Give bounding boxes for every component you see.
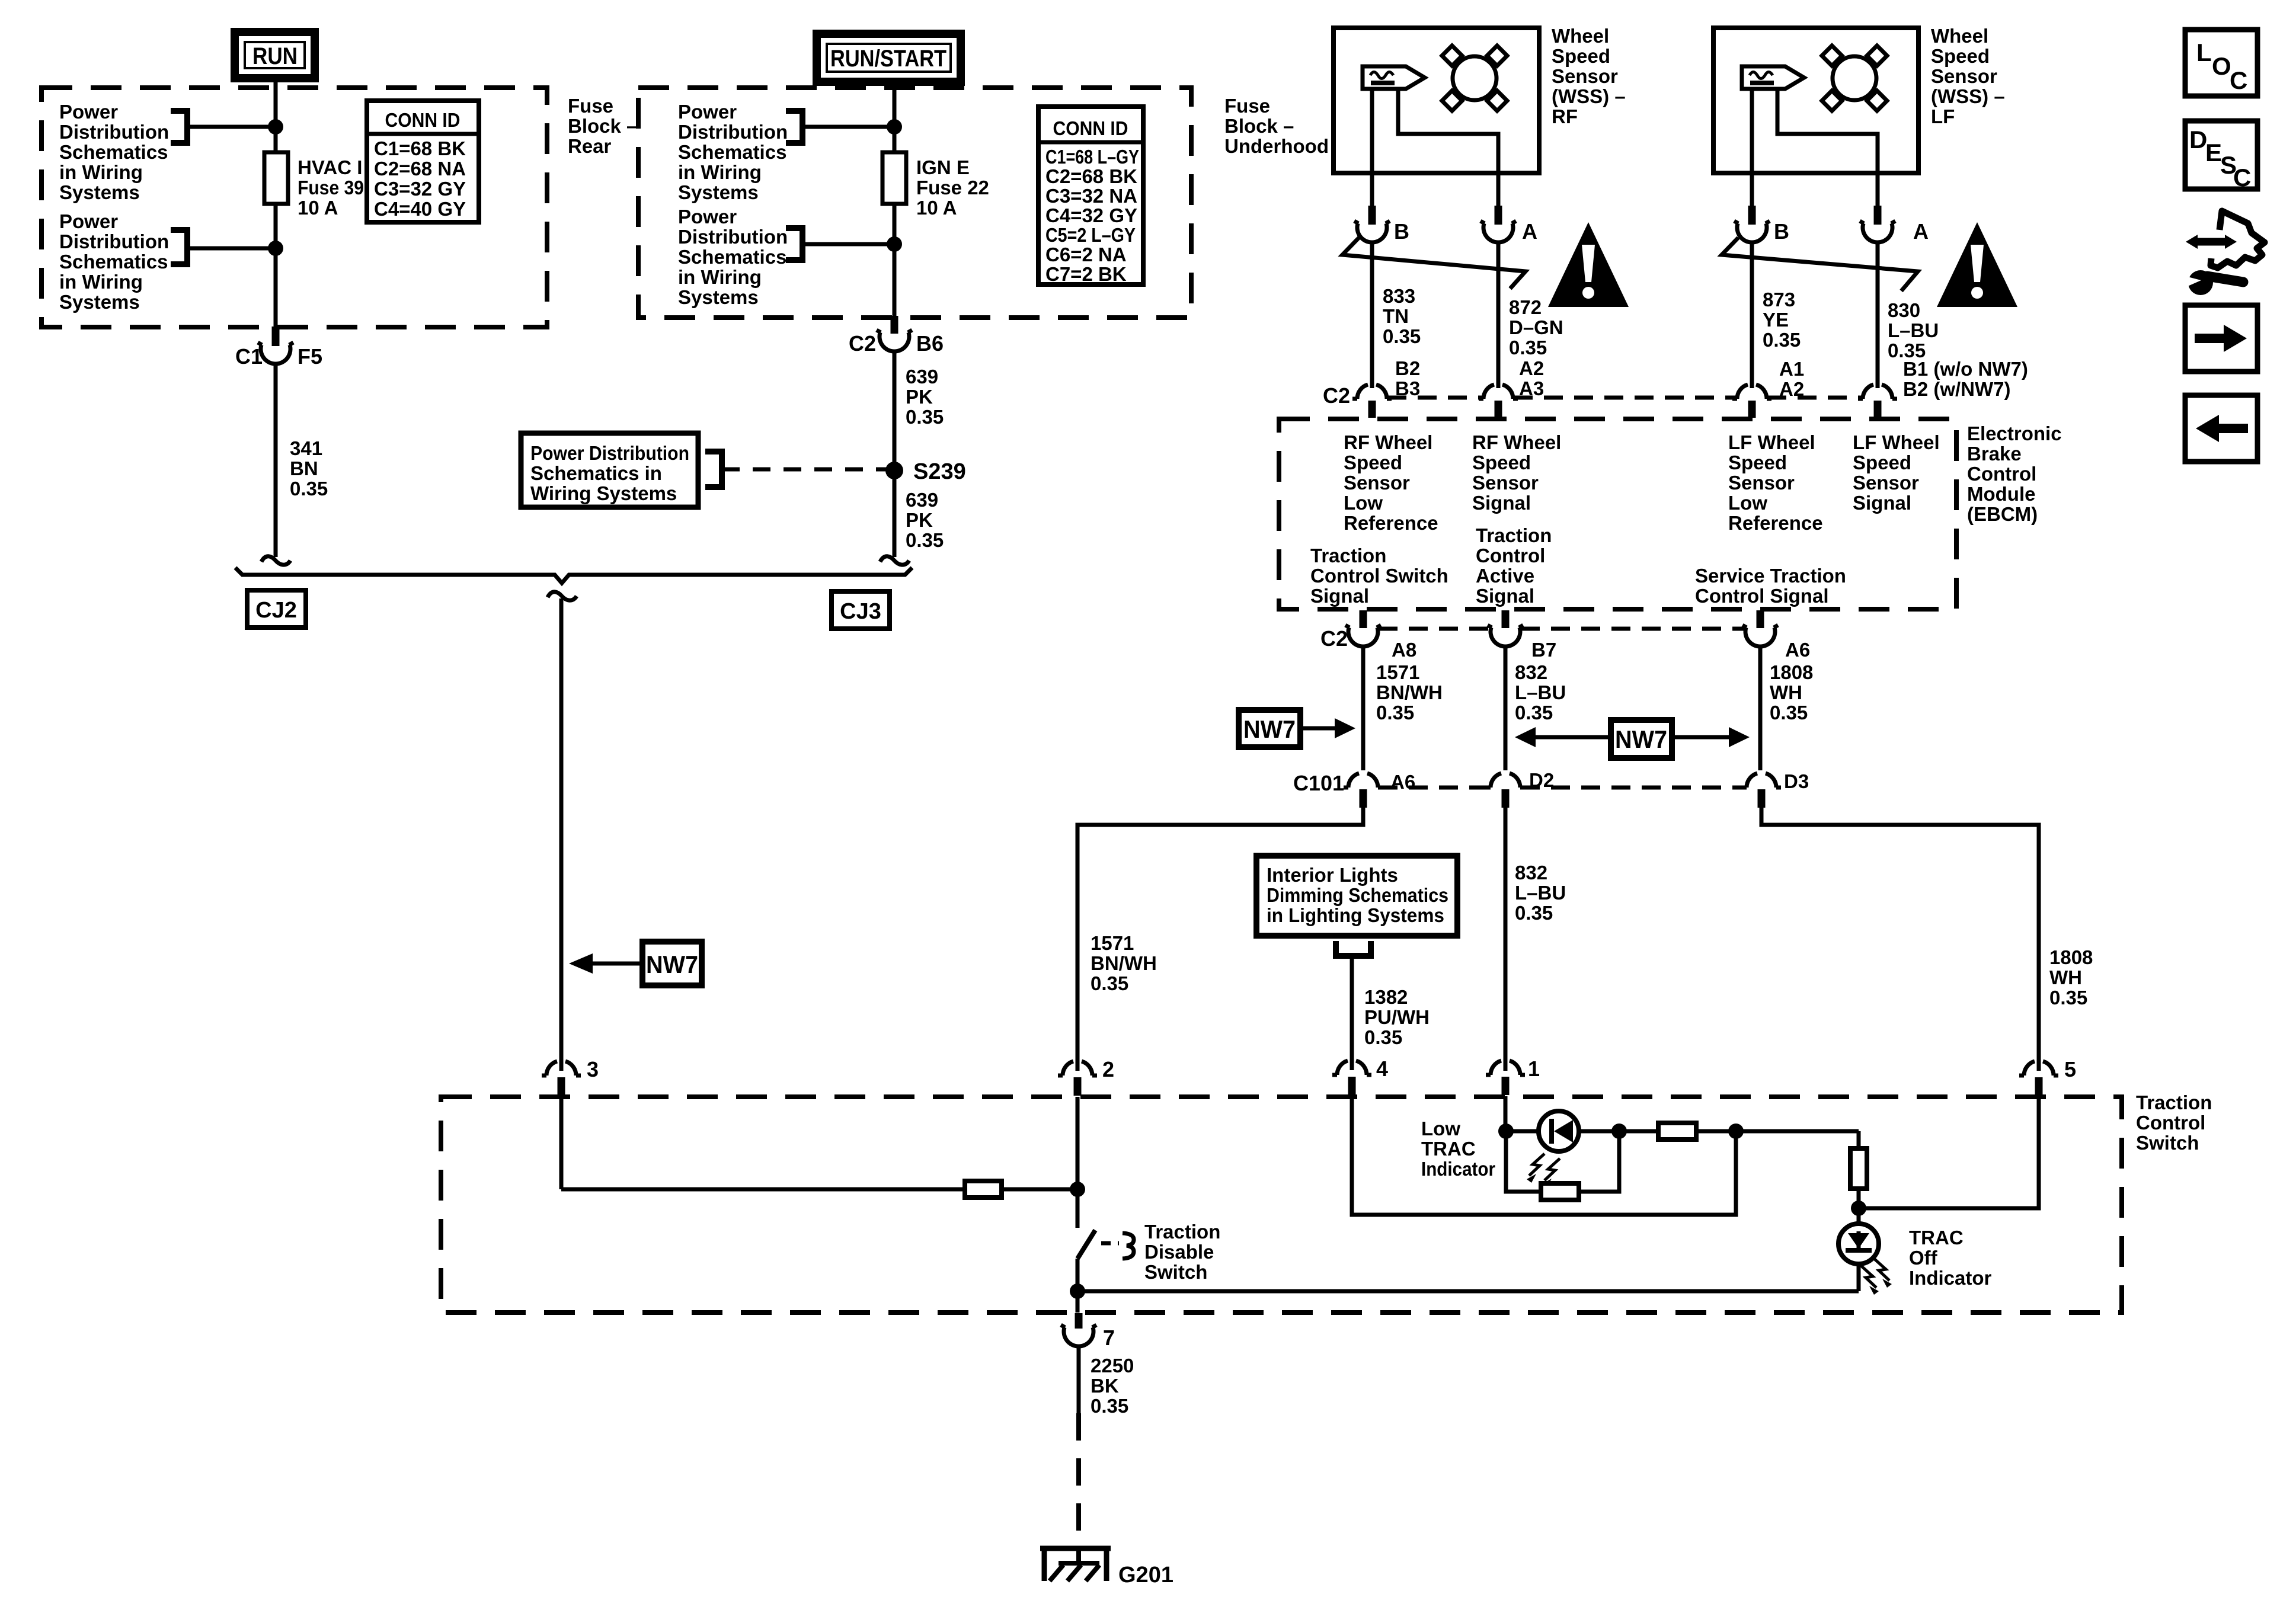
icon arrow left — [2185, 395, 2257, 462]
svg-text:S239: S239 — [913, 459, 966, 484]
ground return line — [1077, 1289, 1859, 1294]
pin stub 7 — [1075, 1313, 1083, 1329]
sensor element symbol RF — [1363, 66, 1425, 89]
svg-text:A8: A8 — [1392, 639, 1416, 661]
internal wire RF sensor to pin B — [1370, 89, 1374, 173]
bracket below interior lights box — [1336, 941, 1371, 956]
wire break squiggle above bus (left) — [261, 556, 290, 565]
internal wire LF sensor to pin B — [1750, 89, 1754, 173]
harness tag NW7 with arrow (left) — [1239, 710, 1355, 747]
wire 639 PK lower segment — [893, 470, 897, 557]
connector cup A6 — [1742, 625, 1778, 646]
connector C2 B6 — [849, 316, 944, 356]
pigtail wire RF B — [1370, 173, 1374, 206]
icon wiring route with wrench — [2185, 211, 2265, 295]
wire resistor to junction — [1857, 1189, 1861, 1208]
WSS RF box — [1334, 28, 1539, 173]
svg-text:Service TractionControl Signal: Service TractionControl Signal — [1695, 565, 1846, 607]
svg-text:C: C — [2233, 164, 2251, 191]
svg-text:C1=68 L–GYC2=68 BKC3=32 NAC4=3: C1=68 L–GYC2=68 BKC3=32 NAC4=32 GYC5=2 L… — [1045, 146, 1139, 285]
splice S239 dot — [885, 462, 903, 479]
solid box Interior Lights Dimming Schematics — [1256, 856, 1457, 936]
svg-text:D3: D3 — [1784, 770, 1809, 792]
indicator feed wire — [1506, 1129, 1859, 1134]
wire 341 BN to splice bus — [274, 363, 278, 557]
CONN ID table (underhood fuse block) — [1038, 107, 1143, 285]
svg-text:CONN ID: CONN ID — [385, 109, 461, 131]
wire 1571 BN/WH EBCM to C101 — [1361, 645, 1366, 770]
wire switch to bottom junction — [1076, 1259, 1080, 1291]
fuse HVAC I Fuse 39 10 A — [264, 152, 364, 219]
connector dome pin 1 — [1486, 1061, 1525, 1075]
bracket and wire to node (upper, underhood block) — [786, 111, 894, 143]
junction dot (pin 4 node) — [1728, 1124, 1744, 1139]
icon DESC — [2185, 121, 2257, 191]
warning triangle LF — [1937, 222, 2017, 307]
pin stub below C101 D2 — [1502, 789, 1510, 808]
svg-text:NW7: NW7 — [646, 950, 698, 978]
junction dot (switch common) — [1070, 1182, 1085, 1197]
wire junction to pin 7 — [1076, 1291, 1080, 1313]
wire 833 TN RF B to EBCM — [1370, 242, 1374, 388]
pin stub out of EBCM (A8) — [1360, 610, 1367, 628]
connector dome pin 5 — [2019, 1061, 2058, 1076]
traction disable switch contact — [1077, 1189, 1134, 1259]
connector dome pin 2 — [1058, 1061, 1097, 1076]
svg-text:A6: A6 — [1390, 771, 1415, 793]
pin stub into EBCM (RF low ref) — [1368, 401, 1376, 418]
wire pin 1 down — [1504, 1096, 1508, 1131]
wire 873 YE LF B to EBCM — [1750, 242, 1754, 388]
connector cup pin 7 — [1061, 1325, 1096, 1346]
connector dome pin 3 — [542, 1061, 581, 1076]
connector row dashed line (EBCM bottom) — [1379, 627, 1745, 631]
wire 639 PK upper segment — [893, 350, 897, 470]
junction dot (LED bypass left leg) — [1611, 1124, 1627, 1139]
svg-text:B1 (w/o NW7)B2 (w/NW7): B1 (w/o NW7)B2 (w/NW7) — [1903, 358, 2028, 400]
wire 830 L-BU LF A to EBCM — [1876, 242, 1880, 388]
connector dome pin 4 — [1332, 1061, 1371, 1075]
svg-text:C2: C2 — [1320, 626, 1348, 651]
harness tag NW7 with double arrow (middle) — [1515, 720, 1750, 758]
pin stub 5 — [2035, 1077, 2043, 1096]
connector RF B — [1354, 206, 1409, 244]
pin stub 3 — [558, 1077, 565, 1096]
icon arrow right — [2185, 305, 2257, 372]
dashed wire to ground — [1076, 1413, 1081, 1548]
svg-text:5: 5 — [2064, 1057, 2076, 1081]
svg-text:C1=68 BKC2=68 NAC3=32 GYC4=40: C1=68 BKC2=68 NAC3=32 GYC4=40 GY — [374, 137, 466, 220]
wire C101 D2 to switch pin 1 — [1504, 808, 1508, 1071]
wire junction to pin 5 — [1859, 1097, 2039, 1208]
connector C1 F5 — [235, 327, 322, 369]
WSS LF box — [1713, 28, 1918, 173]
connector dome C101 A6 — [1344, 773, 1383, 788]
svg-text:C: C — [2230, 66, 2247, 94]
svg-text:L: L — [2196, 39, 2212, 66]
solid box Power Distribution Schematics in Wiring Systems — [521, 433, 698, 507]
pin stub 1 — [1502, 1077, 1510, 1095]
ground symbol G201 — [1040, 1546, 1111, 1581]
svg-text:D: D — [2189, 126, 2207, 153]
svg-text:B2B3: B2B3 — [1395, 357, 1420, 399]
wire RUN/START box to fuse 22 — [893, 82, 897, 152]
wire resistor to junction — [1002, 1188, 1077, 1192]
keyswitch box RUN/START — [817, 34, 961, 82]
wire C101 D3 to switch pin 5 — [1761, 808, 2039, 1071]
internal wire RF sensor to pin A — [1398, 89, 1498, 173]
svg-text:CONN ID: CONN ID — [1053, 117, 1128, 139]
svg-text:1: 1 — [1528, 1057, 1540, 1081]
pin stub below C101 D3 — [1758, 789, 1766, 808]
pin stub below C101 A6 — [1360, 789, 1367, 808]
connector RF A — [1480, 206, 1537, 244]
wire pin 2 down — [1076, 1097, 1080, 1189]
wire C101 A6 to switch pin 2 — [1077, 808, 1363, 1071]
icon LOC — [2185, 30, 2257, 96]
wire 872 D-GN RF A to EBCM — [1496, 242, 1501, 388]
wire break squiggle above bus (right) — [880, 556, 909, 565]
svg-text:A: A — [1522, 219, 1537, 244]
wire fuse 39 to connector C1 — [274, 204, 278, 327]
connector row dashed line C2 — [1387, 396, 1862, 400]
junction node dot — [887, 236, 902, 252]
svg-text:B: B — [1774, 219, 1789, 244]
svg-text:A: A — [1913, 219, 1929, 244]
svg-text:O: O — [2212, 52, 2231, 80]
bracket and dashed link to splice S239 — [705, 452, 887, 487]
svg-text:7: 7 — [1103, 1326, 1115, 1350]
dashed box Fuse Block - Underhood — [638, 88, 1191, 318]
svg-text:2: 2 — [1102, 1057, 1114, 1081]
svg-text:C101: C101 — [1293, 771, 1344, 795]
pin stub into EBCM (LF low ref) — [1748, 401, 1756, 418]
wire 2250 BK — [1077, 1345, 1081, 1413]
warning triangle RF — [1548, 222, 1629, 307]
pin stub into EBCM (RF signal) — [1495, 401, 1502, 418]
svg-text:3: 3 — [587, 1057, 599, 1081]
pigtail wire LF A — [1876, 173, 1880, 206]
junction node dot — [268, 241, 283, 256]
connector cup A8 — [1345, 625, 1381, 646]
svg-text:G201: G201 — [1118, 1563, 1173, 1587]
svg-text:E: E — [2205, 139, 2222, 167]
wire bus to switch pin 3 — [559, 598, 564, 1071]
resistor (TRAC off) — [1850, 1148, 1867, 1189]
Traction Control Switch dashed box — [441, 1097, 2122, 1313]
svg-text:RUN/START: RUN/START — [830, 46, 946, 72]
connector LF A — [1860, 206, 1929, 244]
splice bus brace CJ2/CJ3 — [235, 568, 912, 583]
pin stub into EBCM (LF signal) — [1874, 401, 1882, 418]
internal wire LF sensor to pin A — [1777, 89, 1878, 173]
wire 1382 PU/WH to switch pin 4 — [1350, 956, 1354, 1070]
junction box tag CJ2 — [247, 590, 306, 628]
LED Low TRAC indicator — [1527, 1111, 1579, 1188]
bracket and wire to node (lower, underhood block) — [786, 228, 894, 260]
bypass loop with resistor — [1506, 1131, 1619, 1200]
connector dome LF A1/A2 — [1732, 385, 1771, 399]
junction node dot — [268, 119, 283, 135]
tone ring symbol LF — [1822, 46, 1887, 111]
junction box tag CJ3 — [832, 591, 890, 629]
connector row dashed line C101 — [1379, 786, 1746, 790]
svg-text:CJ2: CJ2 — [255, 598, 297, 623]
svg-text:C2: C2 — [849, 331, 876, 356]
dashed box Fuse Block - Rear — [41, 88, 547, 327]
svg-text:A1A2: A1A2 — [1779, 358, 1804, 400]
svg-text:NW7: NW7 — [1243, 715, 1296, 743]
connector dome C101 D2 — [1486, 773, 1525, 788]
keyswitch box RUN — [235, 32, 315, 78]
twisted pair marker RF — [1342, 238, 1526, 289]
svg-text:F5: F5 — [298, 344, 322, 369]
svg-text:C2: C2 — [1323, 383, 1350, 408]
sensor element symbol LF — [1742, 66, 1804, 89]
junction node dot — [887, 119, 902, 135]
connector dome LF B1/B2 — [1858, 385, 1897, 399]
bracket and wire to node (upper, rear block) — [171, 111, 276, 143]
wire 832 L-BU EBCM to C101 — [1504, 645, 1508, 770]
connector dome RF A2/A3 — [1479, 385, 1518, 399]
fuse IGN E Fuse 22 10 A — [882, 152, 989, 219]
wire RUN box to fuse 39 — [274, 78, 278, 152]
tone ring symbol RF — [1442, 46, 1507, 111]
svg-text:A6: A6 — [1785, 639, 1810, 661]
pin stub 4 — [1348, 1077, 1356, 1095]
wire pin 3 down — [559, 1097, 564, 1189]
svg-text:RUN: RUN — [252, 43, 298, 69]
connector dome RF B2/B3 — [1352, 385, 1392, 399]
twisted pair marker LF — [1722, 238, 1918, 291]
svg-text:C1: C1 — [235, 344, 263, 369]
junction dot (TRAC off node) — [1851, 1201, 1866, 1216]
wire to TRAC off branch — [1857, 1131, 1861, 1148]
svg-text:B: B — [1394, 219, 1409, 244]
svg-text:CJ3: CJ3 — [840, 599, 881, 624]
svg-text:D2: D2 — [1529, 769, 1554, 791]
connector dome C101 D3 — [1742, 773, 1781, 788]
wire break squiggle below bus (center) — [548, 592, 577, 600]
wire pin 4 down and across — [1352, 1096, 1736, 1215]
wire fuse 22 to connector C2 — [893, 204, 897, 316]
connector LF B — [1734, 206, 1789, 244]
wire pin 3 to resistor — [561, 1188, 965, 1192]
connector cup B7 — [1488, 625, 1523, 646]
pin stub out of EBCM (B7) — [1502, 610, 1510, 628]
series resistor (indicator feed) — [1658, 1123, 1696, 1140]
CONN ID table (rear fuse block) — [367, 101, 479, 222]
pigtail wire LF B — [1750, 173, 1754, 206]
pin stub out of EBCM (A6) — [1757, 610, 1764, 628]
svg-text:B6: B6 — [916, 331, 944, 356]
LED TRAC Off indicator — [1838, 1208, 1892, 1295]
wire 1808 WH EBCM to C101 — [1758, 645, 1763, 770]
svg-text:4: 4 — [1376, 1057, 1388, 1081]
pin stub 2 — [1074, 1077, 1082, 1096]
junction dot (pin 1 node) — [1498, 1124, 1514, 1139]
resistor (switch signal) — [965, 1181, 1002, 1198]
svg-text:NW7: NW7 — [1615, 725, 1667, 753]
junction dot (ground return) — [1070, 1283, 1085, 1299]
harness tag NW7 with arrow (at switch signal wire) — [569, 942, 702, 985]
EBCM dashed box — [1279, 419, 1956, 609]
svg-text:A2A3: A2A3 — [1519, 357, 1544, 399]
bracket and wire to node (lower, rear block) — [171, 230, 276, 264]
pigtail wire RF A — [1496, 173, 1501, 206]
svg-text:B7: B7 — [1531, 639, 1556, 661]
